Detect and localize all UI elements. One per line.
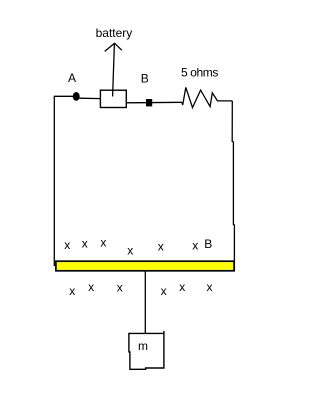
svg-text:x: x (88, 280, 94, 294)
svg-text:battery: battery (96, 26, 133, 40)
svg-text:m: m (138, 339, 148, 353)
svg-text:B: B (204, 237, 212, 251)
svg-text:x: x (179, 280, 185, 294)
svg-text:x: x (82, 237, 88, 251)
svg-text:5 ohms: 5 ohms (181, 66, 218, 80)
svg-text:x: x (158, 240, 164, 254)
battery arrow (105, 43, 122, 96)
svg-text:x: x (192, 238, 198, 252)
battery box U1 (100, 90, 126, 107)
wire: battery box to resistor (126, 101, 182, 104)
wire: left side (53, 96, 55, 266)
svg-text:x: x (69, 284, 75, 298)
svg-text:x: x (207, 280, 213, 294)
conducting rail (yellow bar) (56, 261, 234, 271)
svg-text:x: x (117, 281, 123, 295)
junction dot B (146, 99, 152, 106)
junction dot A (73, 92, 80, 101)
wire: top-left corner to battery box (54, 96, 100, 98)
svg-text:x: x (100, 235, 106, 249)
mass box (129, 331, 164, 369)
svg-text:x: x (64, 238, 70, 252)
svg-text:x: x (161, 284, 167, 298)
svg-text:x: x (127, 244, 133, 258)
svg-text:A: A (68, 71, 76, 85)
svg-text:B: B (141, 71, 149, 85)
string from rail to mass (144, 271, 146, 334)
resistor R1 (182, 87, 232, 107)
wire: right side (232, 101, 234, 271)
